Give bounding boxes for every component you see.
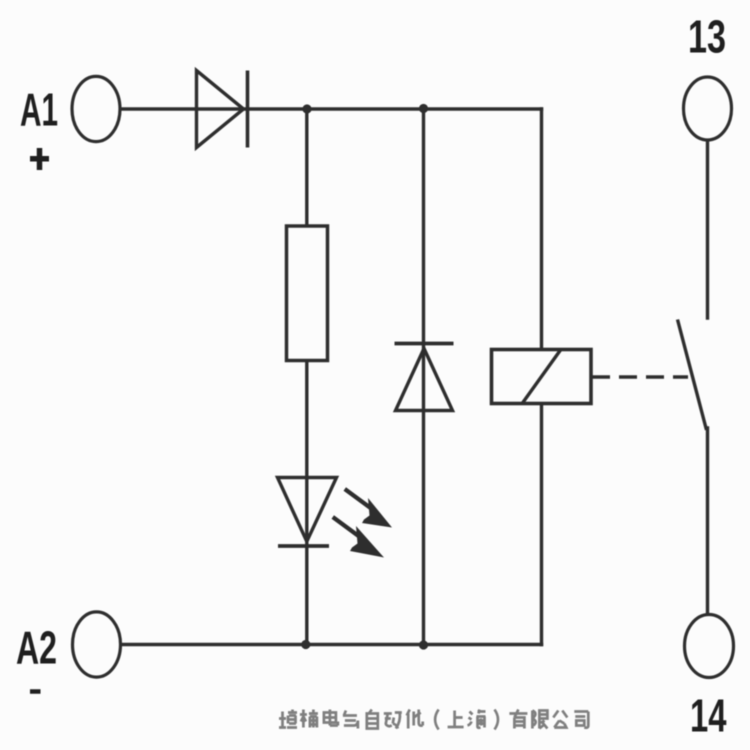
wire left vertical branch (resistor/LED) — [305, 109, 308, 645]
wire right vertical branch (relay coil) — [540, 109, 543, 645]
wire terminal 14 stub — [706, 428, 709, 614]
wire middle vertical branch (suppressor diode) — [422, 109, 425, 646]
junction dot bottom-left — [301, 640, 310, 649]
relay coil K1 diagonal — [523, 350, 561, 403]
diode D1 triangle — [197, 71, 244, 148]
label minus sign — [30, 689, 41, 694]
wire top horizontal A1 to coil branch — [121, 107, 542, 110]
junction dot top-left — [302, 104, 311, 113]
terminal 13 — [684, 77, 732, 140]
LED arrow 2 — [332, 515, 385, 557]
svg-text:A2: A2 — [16, 622, 57, 674]
wire terminal 13 stub — [706, 142, 709, 319]
LED triangle — [278, 478, 337, 542]
relay coil K1 box — [492, 350, 592, 404]
svg-text:A1: A1 — [20, 84, 58, 136]
resistor R1 — [287, 226, 328, 361]
suppressor diode D2 triangle — [396, 349, 453, 411]
wire bottom horizontal A2 to coil branch — [122, 643, 542, 646]
svg-text:13: 13 — [688, 11, 726, 63]
junction dot top-middle — [419, 104, 428, 113]
terminal A1 — [72, 76, 120, 141]
label plus sign — [30, 148, 49, 170]
dashed actuation link — [592, 375, 688, 379]
terminal 14 — [685, 615, 734, 678]
watermark company text (simulated CJK glyphs) — [279, 710, 588, 730]
suppressor diode D2 cathode bar — [395, 342, 454, 346]
LED cathode bar — [278, 544, 329, 548]
terminal A2 — [73, 612, 121, 677]
diode D1 cathode bar — [246, 71, 250, 148]
junction dot bottom-middle — [419, 640, 428, 649]
LED arrow 1 — [344, 487, 393, 527]
switch contact blade — [678, 320, 707, 431]
svg-text:14: 14 — [690, 690, 727, 742]
